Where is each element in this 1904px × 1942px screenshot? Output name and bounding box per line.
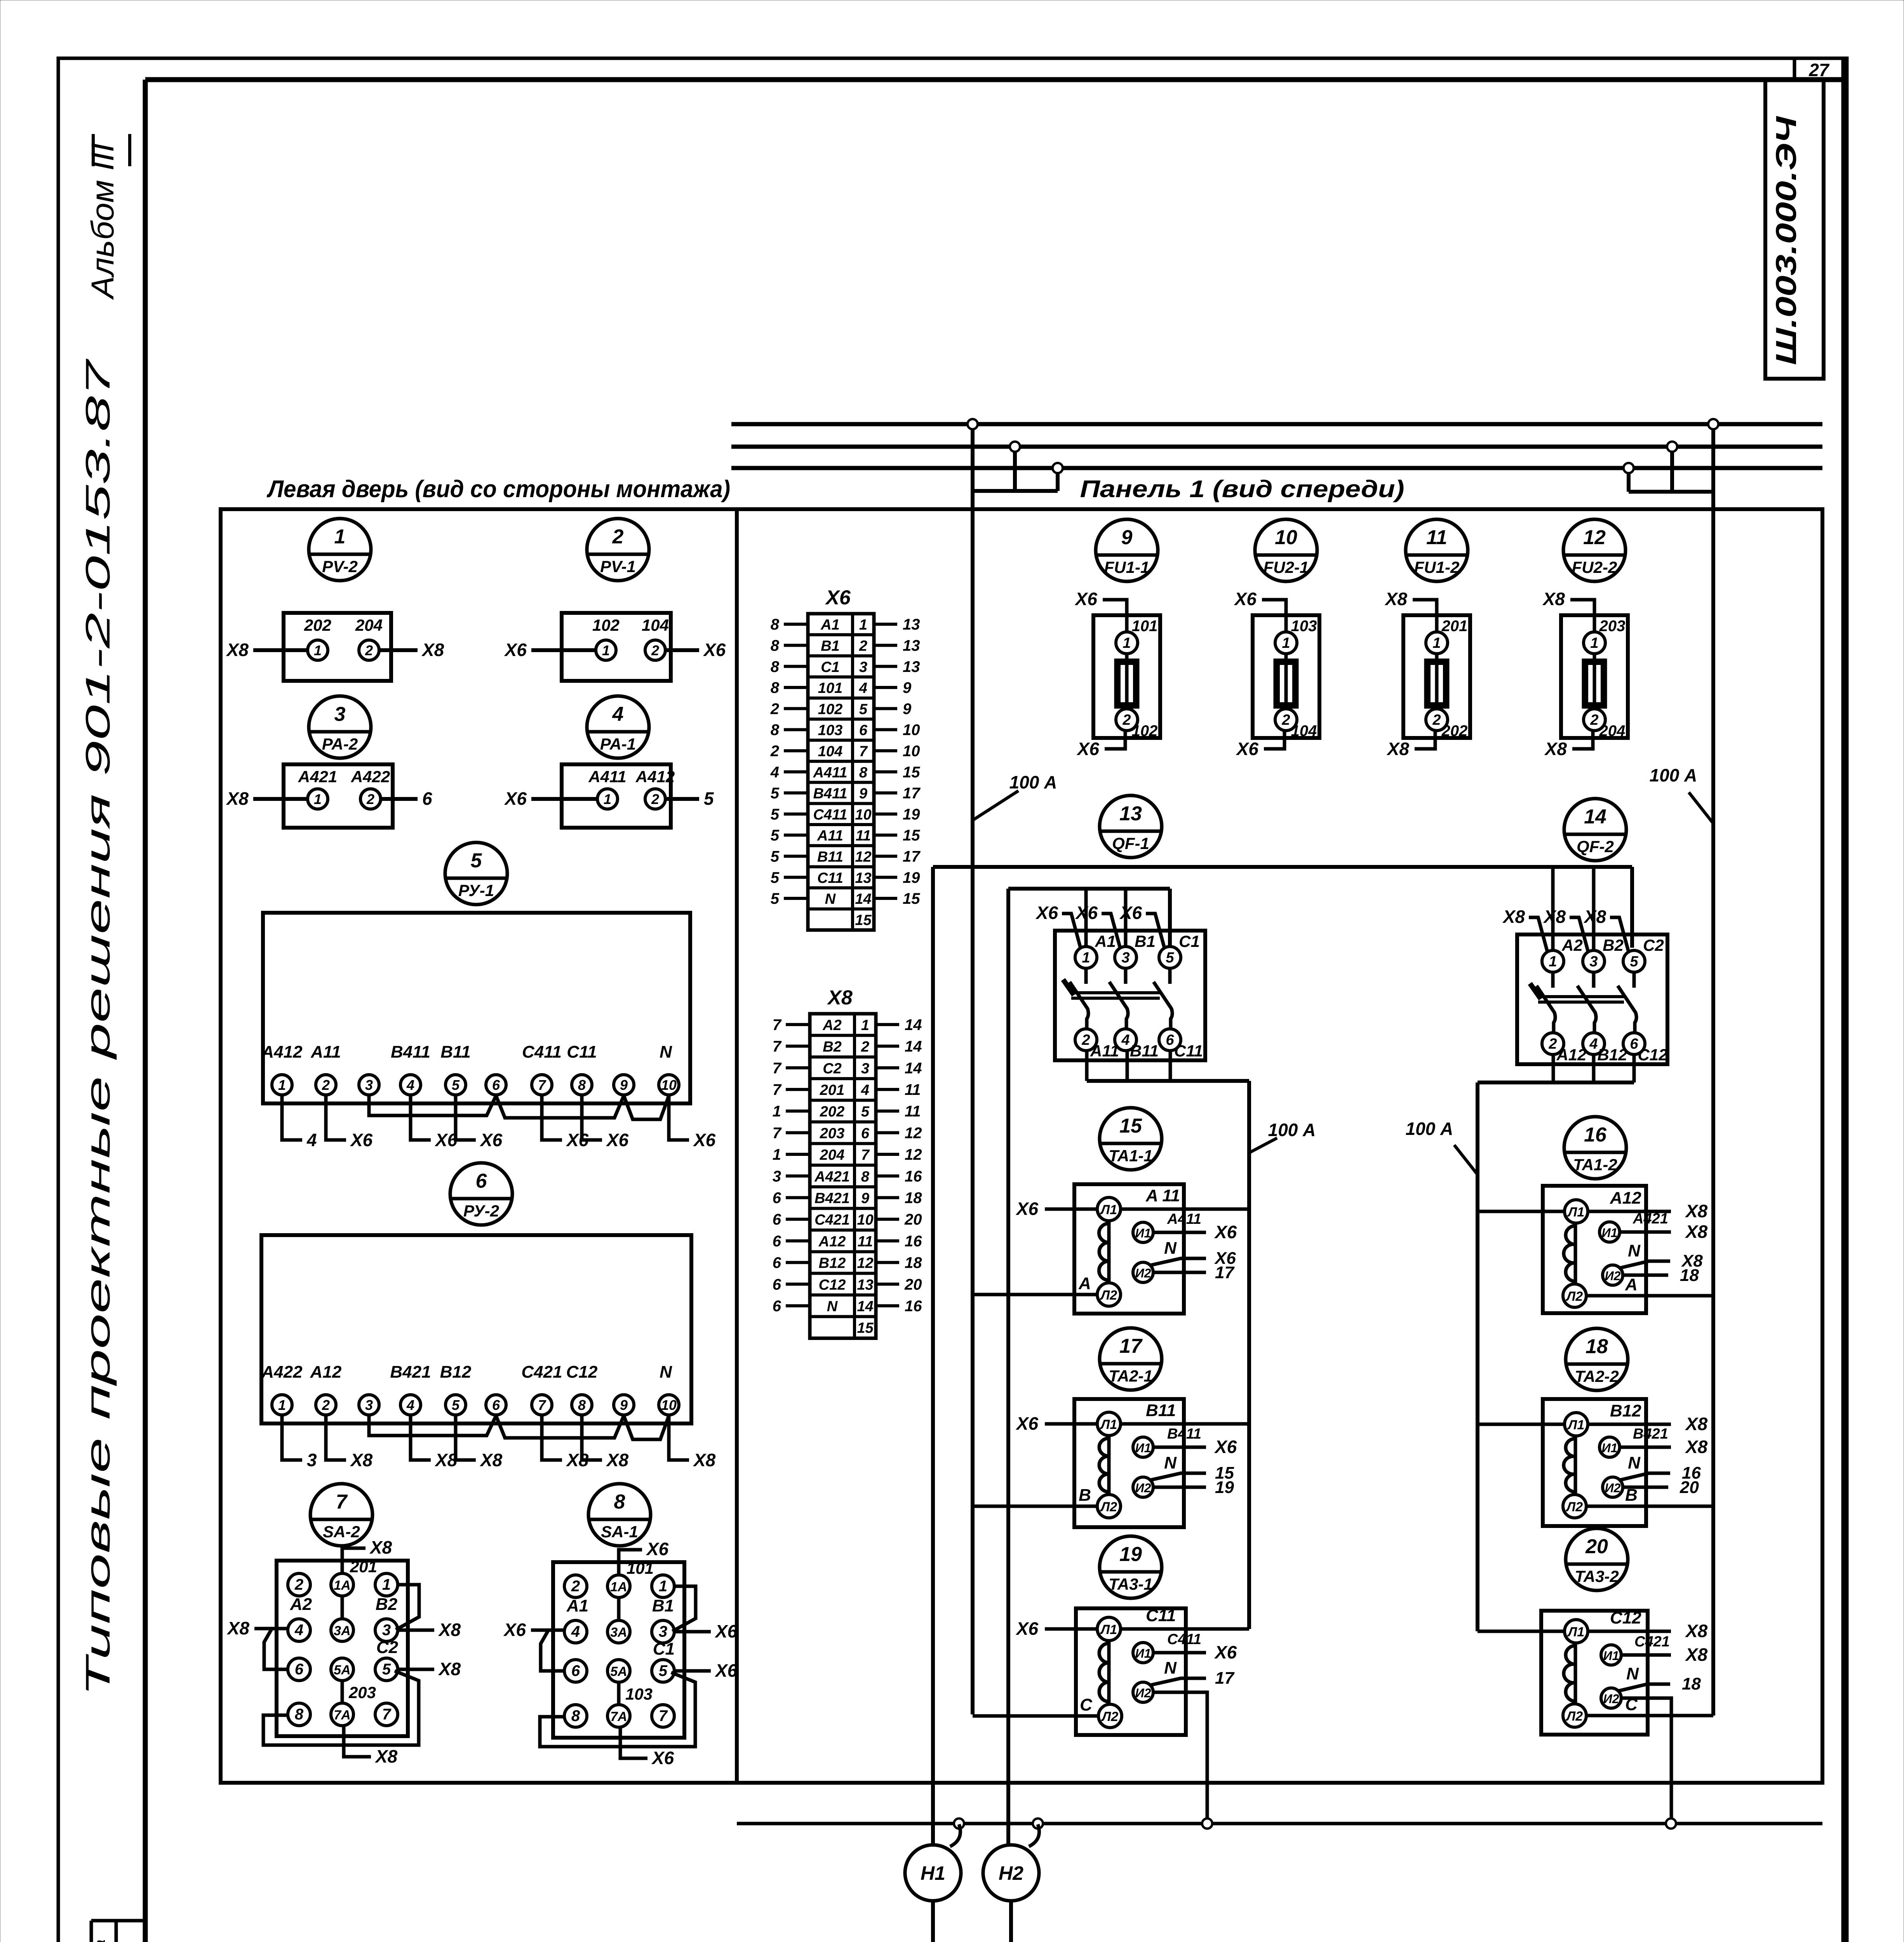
svg-text:1: 1	[382, 1576, 391, 1593]
svg-text:1: 1	[1082, 950, 1090, 966]
svg-text:X8: X8	[1542, 589, 1565, 609]
svg-text:14: 14	[905, 1060, 922, 1077]
svg-text:C11: C11	[567, 1042, 597, 1061]
svg-text:Панель 1 (вид спереди): Панель 1 (вид спереди)	[1080, 476, 1405, 503]
svg-text:Н2: Н2	[999, 1862, 1023, 1884]
svg-text:2: 2	[322, 1077, 330, 1093]
svg-text:10: 10	[661, 1077, 677, 1093]
svg-text:6: 6	[492, 1397, 500, 1413]
svg-text:5: 5	[771, 890, 780, 907]
svg-text:C12: C12	[819, 1277, 846, 1293]
svg-text:2: 2	[294, 1576, 303, 1593]
svg-text:203: 203	[1599, 618, 1626, 635]
svg-text:TA2-1: TA2-1	[1109, 1367, 1153, 1385]
svg-text:9: 9	[903, 700, 912, 717]
svg-text:2: 2	[770, 700, 779, 717]
svg-text:N: N	[1164, 1658, 1177, 1677]
svg-text:Л2: Л2	[1565, 1709, 1583, 1724]
svg-text:100 А: 100 А	[1009, 772, 1057, 792]
svg-text:A11: A11	[817, 828, 843, 844]
svg-text:3: 3	[334, 703, 346, 726]
svg-text:6: 6	[861, 1125, 870, 1142]
svg-text:203: 203	[348, 1683, 376, 1702]
svg-text:X6: X6	[1074, 589, 1098, 609]
svg-text:X8: X8	[1502, 907, 1525, 927]
svg-text:X8: X8	[827, 987, 853, 1009]
svg-text:Л1: Л1	[1100, 1622, 1117, 1637]
svg-text:A411: A411	[1167, 1211, 1201, 1227]
svg-text:C2: C2	[376, 1638, 399, 1657]
svg-text:1: 1	[861, 1017, 869, 1034]
svg-text:Типовые проектные решения 901-: Типовые проектные решения 901-2-0153.87	[78, 358, 117, 1697]
svg-text:10: 10	[857, 1212, 873, 1228]
svg-text:1: 1	[773, 1103, 781, 1120]
svg-text:И1: И1	[1602, 1226, 1618, 1240]
svg-text:И1: И1	[1603, 1649, 1619, 1663]
svg-text:1: 1	[773, 1146, 781, 1163]
svg-text:3: 3	[773, 1168, 781, 1185]
svg-text:X6: X6	[1214, 1222, 1237, 1242]
svg-text:X8: X8	[1685, 1222, 1708, 1242]
svg-text:TA1-2: TA1-2	[1573, 1155, 1617, 1174]
svg-text:8: 8	[578, 1077, 586, 1093]
svg-text:8: 8	[295, 1706, 304, 1723]
svg-text:B421: B421	[815, 1190, 850, 1206]
svg-text:2: 2	[571, 1578, 580, 1595]
svg-text:Л1: Л1	[1100, 1202, 1117, 1217]
svg-text:4: 4	[770, 764, 779, 781]
svg-text:13: 13	[903, 616, 920, 633]
svg-text:203: 203	[820, 1125, 844, 1142]
svg-text:19: 19	[1215, 1478, 1234, 1497]
svg-text:5: 5	[771, 827, 780, 844]
svg-text:N: N	[660, 1042, 672, 1061]
svg-text:2: 2	[365, 642, 373, 658]
svg-text:B411: B411	[391, 1042, 430, 1061]
svg-text:FU2-2: FU2-2	[1572, 558, 1617, 576]
svg-text:7: 7	[538, 1077, 546, 1093]
svg-text:16: 16	[905, 1233, 922, 1250]
svg-text:A412: A412	[261, 1042, 303, 1061]
svg-text:9: 9	[859, 786, 867, 802]
svg-text:11: 11	[1426, 526, 1447, 549]
svg-text:C11: C11	[1146, 1606, 1176, 1625]
svg-text:6: 6	[492, 1077, 500, 1093]
svg-text:И1: И1	[1135, 1441, 1151, 1455]
svg-text:18: 18	[1680, 1266, 1699, 1285]
svg-text:104: 104	[1291, 722, 1317, 740]
svg-text:C421: C421	[815, 1212, 850, 1228]
svg-text:6: 6	[1630, 1036, 1638, 1052]
svg-text:B411: B411	[813, 786, 847, 802]
svg-text:3: 3	[307, 1450, 317, 1470]
svg-text:X8: X8	[226, 640, 249, 660]
svg-text:B11: B11	[1146, 1401, 1176, 1420]
svg-text:1: 1	[659, 1578, 667, 1595]
svg-text:B421: B421	[390, 1363, 431, 1382]
svg-text:Л2: Л2	[1101, 1709, 1118, 1724]
svg-text:X6: X6	[1035, 903, 1058, 923]
svg-text:5: 5	[771, 848, 780, 865]
svg-text:10: 10	[903, 743, 920, 760]
svg-text:C1: C1	[821, 659, 840, 675]
svg-text:X8: X8	[1386, 739, 1410, 759]
svg-text:104: 104	[818, 743, 842, 760]
svg-text:C12: C12	[1610, 1608, 1641, 1627]
svg-text:5: 5	[471, 849, 482, 872]
svg-text:И2: И2	[1603, 1692, 1619, 1706]
svg-text:4: 4	[406, 1397, 414, 1413]
svg-text:B11: B11	[1130, 1042, 1159, 1060]
svg-text:10: 10	[1275, 526, 1297, 549]
svg-text:9: 9	[861, 1190, 869, 1206]
svg-text:3: 3	[382, 1622, 391, 1639]
svg-text:12: 12	[855, 849, 871, 865]
svg-text:3: 3	[365, 1397, 373, 1413]
svg-text:3: 3	[1121, 950, 1130, 966]
svg-text:SA-2: SA-2	[323, 1523, 360, 1541]
svg-text:8: 8	[614, 1491, 625, 1513]
svg-text:12: 12	[905, 1146, 922, 1163]
svg-text:14: 14	[905, 1038, 922, 1055]
svg-text:8: 8	[771, 637, 780, 654]
svg-text:5: 5	[1630, 954, 1638, 970]
svg-text:C411: C411	[522, 1042, 562, 1061]
svg-text:27: 27	[1808, 60, 1830, 80]
svg-text:7: 7	[773, 1016, 782, 1034]
svg-text:A411: A411	[588, 767, 626, 786]
svg-text:X8: X8	[226, 788, 249, 809]
svg-text:N: N	[1628, 1241, 1641, 1260]
svg-text:И2: И2	[1605, 1269, 1621, 1283]
svg-text:X6: X6	[479, 1130, 503, 1150]
svg-text:SA-1: SA-1	[601, 1523, 638, 1541]
svg-text:X6: X6	[504, 640, 527, 660]
svg-text:9: 9	[1121, 526, 1133, 549]
svg-text:A12: A12	[1610, 1189, 1641, 1208]
svg-text:13: 13	[857, 1277, 873, 1293]
svg-text:РУ-2: РУ-2	[463, 1202, 499, 1220]
svg-text:A12: A12	[1556, 1046, 1586, 1064]
svg-text:И1: И1	[1135, 1226, 1151, 1240]
svg-text:X6: X6	[1076, 739, 1100, 759]
svg-text:5: 5	[1166, 950, 1174, 966]
svg-text:FU1-2: FU1-2	[1414, 558, 1460, 576]
svg-text:QF-1: QF-1	[1112, 834, 1149, 853]
svg-text:11: 11	[858, 1234, 873, 1250]
svg-text:N: N	[1626, 1664, 1639, 1683]
svg-text:14: 14	[857, 1298, 873, 1315]
svg-text:19: 19	[1119, 1543, 1142, 1566]
svg-text:5: 5	[659, 1662, 668, 1679]
svg-text:5: 5	[382, 1661, 391, 1678]
svg-text:A1: A1	[1095, 932, 1116, 950]
svg-text:X6: X6	[606, 1130, 629, 1150]
svg-text:8: 8	[771, 658, 780, 675]
svg-text:2: 2	[1432, 712, 1441, 728]
svg-text:4: 4	[1589, 1036, 1598, 1052]
svg-text:6: 6	[422, 788, 432, 809]
svg-text:A411: A411	[813, 764, 847, 781]
svg-text:7: 7	[773, 1124, 782, 1142]
svg-text:X8: X8	[606, 1450, 629, 1470]
svg-text:6: 6	[773, 1276, 781, 1293]
svg-text:PV-1: PV-1	[600, 557, 636, 576]
svg-text:X8: X8	[438, 1659, 461, 1679]
svg-text:1: 1	[1590, 635, 1598, 651]
svg-text:A12: A12	[818, 1234, 846, 1250]
svg-text:X8: X8	[1685, 1437, 1708, 1457]
svg-text:4: 4	[571, 1623, 580, 1640]
svg-text:TA2-2: TA2-2	[1575, 1367, 1619, 1385]
svg-text:X6: X6	[1015, 1618, 1039, 1639]
svg-text:1: 1	[859, 617, 867, 633]
svg-text:3: 3	[859, 659, 867, 675]
svg-text:Л1: Л1	[1100, 1417, 1117, 1432]
svg-text:X8: X8	[1384, 589, 1408, 609]
svg-text:101: 101	[818, 680, 842, 696]
svg-text:B1: B1	[652, 1596, 674, 1615]
svg-text:Л1: Л1	[1567, 1625, 1584, 1639]
svg-text:15: 15	[903, 890, 920, 907]
svg-text:B: B	[1079, 1486, 1091, 1505]
svg-text:10: 10	[903, 722, 920, 739]
svg-text:И2: И2	[1605, 1481, 1621, 1495]
svg-text:N: N	[827, 1298, 838, 1315]
svg-text:X8: X8	[369, 1537, 392, 1557]
svg-text:8: 8	[571, 1707, 580, 1724]
svg-text:C: C	[1080, 1695, 1093, 1714]
svg-text:X6: X6	[693, 1130, 716, 1150]
svg-text:202: 202	[304, 616, 331, 634]
svg-text:B: B	[1625, 1486, 1638, 1505]
svg-text:7: 7	[861, 1147, 870, 1163]
svg-text:A12: A12	[310, 1363, 342, 1382]
svg-text:101: 101	[627, 1559, 654, 1577]
svg-text:C2: C2	[1643, 936, 1664, 954]
svg-text:X8: X8	[693, 1450, 716, 1470]
svg-text:B1: B1	[1135, 932, 1156, 950]
svg-text:7A: 7A	[334, 1708, 350, 1723]
svg-text:2: 2	[651, 791, 659, 807]
svg-text:Л2: Л2	[1100, 1288, 1117, 1303]
svg-text:11: 11	[905, 1081, 921, 1098]
svg-text:3: 3	[1589, 954, 1598, 970]
svg-text:7: 7	[773, 1081, 782, 1098]
svg-text:201: 201	[350, 1557, 377, 1576]
svg-text:1: 1	[604, 791, 611, 807]
svg-text:X6: X6	[651, 1748, 674, 1768]
svg-text:B2: B2	[1603, 936, 1624, 954]
svg-text:A: A	[1625, 1275, 1638, 1294]
svg-text:FU1-1: FU1-1	[1104, 558, 1150, 576]
svg-text:20: 20	[1679, 1478, 1699, 1497]
svg-text:202: 202	[1441, 722, 1468, 740]
svg-text:Л2: Л2	[1100, 1500, 1117, 1514]
svg-text:2: 2	[1081, 1032, 1090, 1048]
svg-text:QF-2: QF-2	[1577, 837, 1614, 856]
svg-text:102: 102	[818, 701, 842, 717]
svg-text:6: 6	[295, 1661, 304, 1678]
svg-text:PA-2: PA-2	[322, 735, 358, 753]
svg-text:A1: A1	[820, 617, 840, 633]
svg-text:20: 20	[904, 1276, 922, 1293]
svg-text:A422: A422	[261, 1363, 303, 1382]
svg-text:X8: X8	[374, 1746, 398, 1766]
svg-text:1A: 1A	[610, 1580, 627, 1594]
svg-text:4: 4	[306, 1130, 317, 1150]
svg-text:A421: A421	[298, 767, 337, 786]
svg-text:16: 16	[905, 1298, 922, 1315]
svg-text:A2: A2	[1561, 936, 1583, 954]
svg-text:N: N	[660, 1363, 672, 1382]
svg-text:17: 17	[1215, 1669, 1235, 1688]
svg-text:6: 6	[773, 1255, 781, 1272]
svg-text:Ш.003.000.ЭЧ: Ш.003.000.ЭЧ	[1770, 116, 1802, 365]
svg-text:5: 5	[771, 806, 780, 823]
svg-text:C12: C12	[1638, 1046, 1667, 1064]
svg-text:19: 19	[903, 806, 920, 823]
svg-text:Альбом III: Альбом III	[85, 143, 120, 300]
svg-text:B2: B2	[376, 1595, 398, 1614]
svg-text:4: 4	[861, 1082, 869, 1098]
svg-text:101: 101	[1132, 618, 1158, 635]
svg-text:13: 13	[1119, 802, 1142, 825]
svg-text:9: 9	[620, 1397, 628, 1413]
svg-text:7: 7	[382, 1706, 392, 1723]
svg-text:5: 5	[861, 1104, 870, 1120]
svg-text:X8: X8	[479, 1450, 503, 1470]
svg-text:100 А: 100 А	[1406, 1119, 1453, 1139]
svg-text:100 А: 100 А	[1650, 765, 1697, 785]
svg-text:C11: C11	[1174, 1042, 1203, 1060]
svg-text:B12: B12	[440, 1363, 472, 1382]
svg-text:5: 5	[704, 788, 714, 809]
svg-text:Л2: Л2	[1565, 1500, 1583, 1514]
svg-text:4: 4	[406, 1077, 414, 1093]
svg-text:5A: 5A	[334, 1663, 350, 1677]
svg-text:2: 2	[322, 1397, 330, 1413]
svg-text:8: 8	[771, 616, 780, 633]
svg-text:15: 15	[903, 764, 920, 781]
svg-text:2: 2	[612, 526, 624, 548]
svg-text:N: N	[1164, 1453, 1177, 1472]
svg-text:И2: И2	[1135, 1481, 1151, 1495]
svg-text:C1: C1	[653, 1639, 675, 1658]
svg-text:18: 18	[905, 1189, 922, 1206]
svg-text:C2: C2	[823, 1060, 842, 1077]
svg-text:3: 3	[659, 1623, 667, 1640]
svg-text:A412: A412	[635, 767, 675, 786]
svg-text:И1: И1	[1602, 1441, 1618, 1455]
svg-text:15: 15	[857, 1320, 874, 1336]
svg-text:8: 8	[771, 679, 780, 696]
svg-text:X8: X8	[350, 1450, 373, 1470]
svg-text:N: N	[825, 891, 836, 907]
svg-text:X6: X6	[1214, 1642, 1237, 1662]
svg-text:2: 2	[1548, 1036, 1557, 1052]
svg-text:2: 2	[1281, 712, 1290, 728]
svg-text:9: 9	[903, 679, 912, 696]
svg-text:Н1: Н1	[921, 1862, 945, 1884]
svg-text:X8: X8	[1685, 1201, 1708, 1221]
svg-text:6: 6	[859, 722, 868, 739]
svg-text:204: 204	[1599, 722, 1626, 740]
svg-text:1: 1	[278, 1397, 286, 1413]
svg-text:15: 15	[855, 912, 872, 928]
svg-text:5A: 5A	[610, 1664, 627, 1679]
svg-text:PA-1: PA-1	[600, 735, 636, 753]
svg-text:И2: И2	[1135, 1266, 1151, 1280]
svg-text:TA3-2: TA3-2	[1575, 1567, 1619, 1585]
svg-text:И1: И1	[1135, 1646, 1151, 1660]
svg-text:X8: X8	[421, 640, 444, 660]
svg-text:A421: A421	[814, 1169, 850, 1185]
svg-text:20: 20	[1585, 1535, 1608, 1558]
svg-text:8: 8	[771, 722, 780, 739]
svg-text:6: 6	[1166, 1032, 1174, 1048]
svg-text:X8: X8	[1583, 907, 1606, 927]
svg-text:2: 2	[651, 642, 659, 658]
svg-text:3: 3	[861, 1060, 869, 1077]
svg-text:1: 1	[1123, 635, 1131, 651]
svg-text:17: 17	[903, 785, 921, 802]
svg-text:6: 6	[773, 1298, 781, 1315]
svg-text:X6: X6	[1119, 903, 1142, 923]
svg-text:1: 1	[1432, 635, 1441, 651]
svg-text:C411: C411	[813, 807, 847, 823]
svg-text:X6: X6	[714, 1621, 738, 1641]
svg-text:6: 6	[773, 1211, 781, 1228]
svg-text:19: 19	[903, 869, 920, 886]
svg-text:12: 12	[905, 1124, 922, 1142]
svg-text:14: 14	[1584, 806, 1606, 828]
svg-text:14: 14	[905, 1016, 922, 1034]
svg-text:N: N	[1164, 1239, 1177, 1258]
svg-text:B12: B12	[819, 1255, 846, 1272]
svg-text:10: 10	[661, 1397, 677, 1413]
svg-text:7: 7	[773, 1038, 782, 1055]
svg-text:B2: B2	[823, 1039, 842, 1055]
svg-text:C411: C411	[1167, 1631, 1201, 1648]
svg-text:102: 102	[1132, 722, 1158, 740]
svg-text:13: 13	[855, 870, 871, 886]
svg-text:B11: B11	[817, 849, 843, 865]
svg-text:Подпись и дата: Подпись и дата	[92, 1940, 108, 1942]
svg-text:X6: X6	[825, 586, 851, 609]
svg-text:7: 7	[773, 1060, 782, 1077]
svg-text:1: 1	[1549, 954, 1557, 970]
svg-text:10: 10	[855, 807, 871, 823]
svg-text:16: 16	[905, 1168, 922, 1185]
svg-text:X8: X8	[1685, 1644, 1708, 1665]
svg-text:X8: X8	[226, 1618, 250, 1638]
svg-text:204: 204	[355, 616, 383, 634]
svg-text:8: 8	[578, 1397, 586, 1413]
svg-text:5: 5	[452, 1077, 460, 1093]
svg-text:204: 204	[820, 1147, 844, 1163]
svg-text:5: 5	[771, 785, 780, 802]
svg-text:2: 2	[1122, 712, 1131, 728]
svg-text:C421: C421	[1634, 1634, 1670, 1650]
svg-text:3: 3	[365, 1077, 373, 1093]
svg-text:B411: B411	[1167, 1426, 1201, 1442]
svg-text:Левая дверь (вид со стороны мо: Левая дверь (вид со стороны монтажа)	[266, 476, 730, 503]
svg-text:Л1: Л1	[1567, 1418, 1584, 1432]
svg-text:PV-2: PV-2	[322, 557, 358, 576]
svg-text:17: 17	[903, 848, 921, 865]
svg-text:A2: A2	[822, 1017, 842, 1034]
